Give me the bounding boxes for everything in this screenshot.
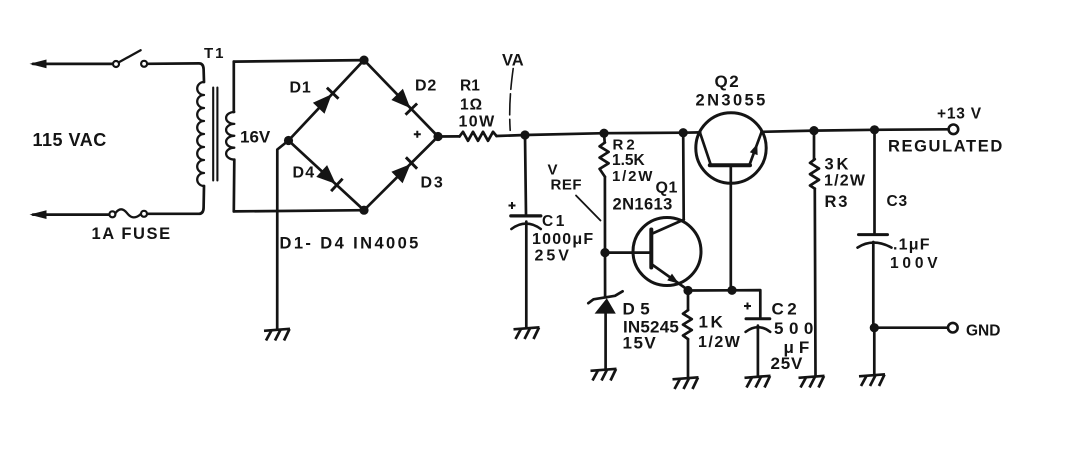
svg-text:500: 500 bbox=[774, 319, 819, 338]
svg-text:1/2W: 1/2W bbox=[698, 334, 741, 351]
svg-text:1.5K: 1.5K bbox=[612, 152, 646, 169]
svg-text:3K: 3K bbox=[825, 156, 852, 174]
svg-text:C1: C1 bbox=[542, 213, 567, 230]
svg-text:16V: 16V bbox=[240, 128, 271, 147]
svg-text:Q1: Q1 bbox=[656, 180, 678, 197]
svg-text:D1: D1 bbox=[290, 80, 312, 97]
svg-text:D1- D4 IN4005: D1- D4 IN4005 bbox=[280, 235, 421, 253]
svg-text:VA: VA bbox=[502, 52, 524, 70]
svg-text:1A FUSE: 1A FUSE bbox=[92, 225, 172, 243]
svg-text:D5: D5 bbox=[623, 300, 656, 319]
svg-text:1K: 1K bbox=[699, 313, 726, 332]
svg-text:100V: 100V bbox=[890, 255, 941, 272]
svg-text:15V: 15V bbox=[623, 334, 658, 353]
svg-text:.1μF: .1μF bbox=[893, 237, 931, 254]
svg-text:Q2: Q2 bbox=[715, 72, 741, 91]
svg-text:115 VAC: 115 VAC bbox=[33, 130, 107, 150]
svg-text:C3: C3 bbox=[887, 193, 908, 210]
svg-text:D3: D3 bbox=[421, 175, 445, 192]
svg-text:25V: 25V bbox=[535, 248, 572, 265]
svg-text:REF: REF bbox=[551, 177, 583, 194]
svg-text:R3: R3 bbox=[825, 193, 850, 211]
svg-text:D2: D2 bbox=[415, 78, 437, 95]
svg-text:1/2W: 1/2W bbox=[824, 173, 866, 190]
svg-text:+13 V: +13 V bbox=[937, 106, 982, 123]
svg-text:2N1613: 2N1613 bbox=[613, 196, 673, 214]
svg-text:REGULATED: REGULATED bbox=[888, 138, 1004, 156]
svg-text:R1: R1 bbox=[460, 78, 480, 95]
svg-text:2N3055: 2N3055 bbox=[696, 92, 768, 110]
svg-text:R2: R2 bbox=[613, 137, 638, 154]
svg-text:1000μF: 1000μF bbox=[532, 231, 594, 248]
svg-text:1Ω: 1Ω bbox=[460, 97, 483, 114]
svg-text:D4: D4 bbox=[293, 165, 316, 182]
svg-text:25V: 25V bbox=[771, 354, 804, 373]
svg-text:GND: GND bbox=[966, 323, 1000, 340]
svg-text:T1: T1 bbox=[204, 45, 226, 62]
svg-text:1/2W: 1/2W bbox=[612, 168, 654, 185]
svg-text:C2: C2 bbox=[772, 300, 801, 319]
svg-text:10W: 10W bbox=[459, 114, 496, 131]
